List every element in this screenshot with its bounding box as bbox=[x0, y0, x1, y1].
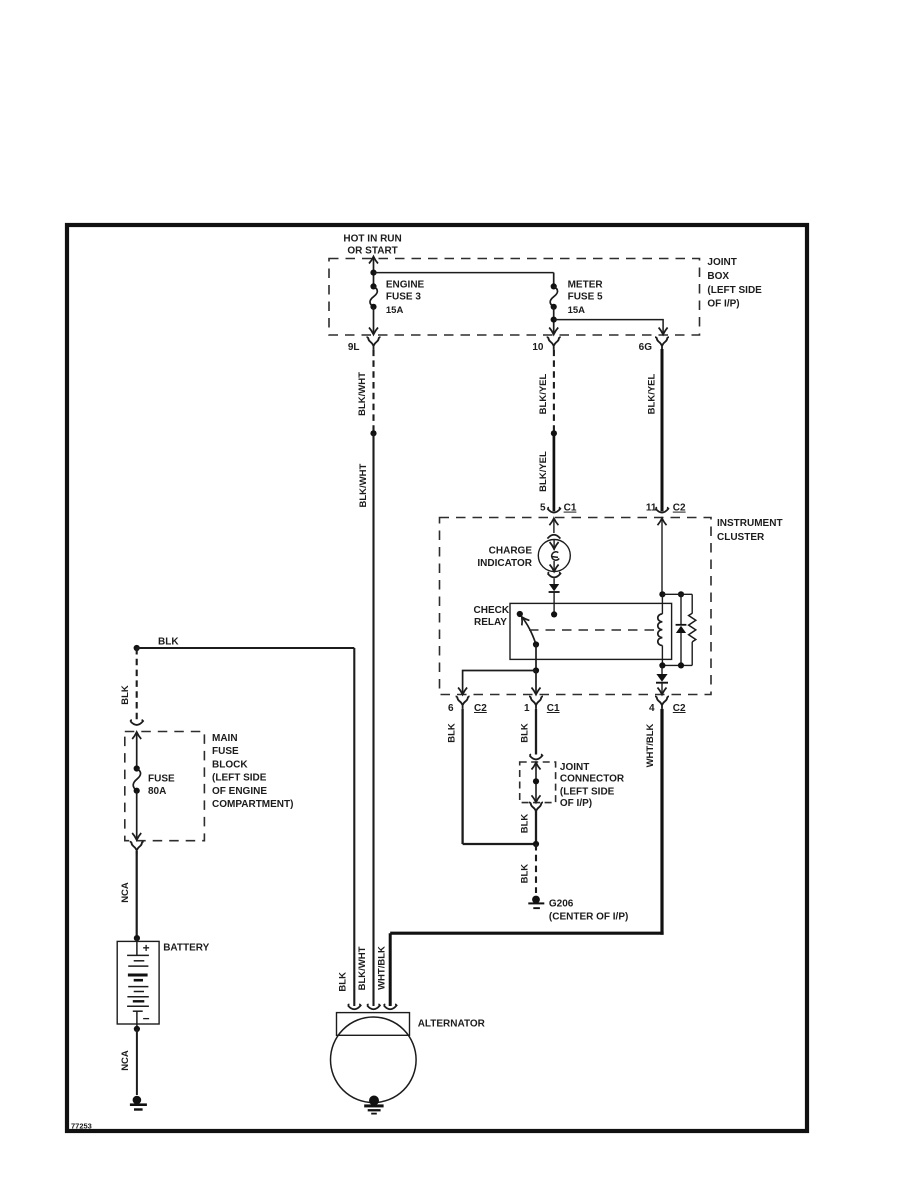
wire engine fuse to 9L bbox=[373, 307, 375, 334]
wire feed to meter fuse bbox=[374, 272, 554, 274]
node lamp terminal in relay bbox=[551, 611, 557, 617]
wire pin5 to lamp bbox=[553, 518, 555, 533]
arrow down inside bulb bbox=[550, 542, 559, 549]
relay actuator dashed link bbox=[529, 629, 657, 631]
charge indicator bulb circle bbox=[538, 540, 570, 572]
svg-text:CHARGE: CHARGE bbox=[489, 546, 533, 557]
svg-text:BLK/WHT: BLK/WHT bbox=[357, 372, 368, 416]
arrow down at pin 4 bbox=[658, 688, 667, 695]
connector cup alternator WHT/BLK bbox=[384, 1004, 397, 1009]
connector cup pin 6 bbox=[456, 696, 470, 709]
svg-text:9L: 9L bbox=[348, 342, 360, 353]
svg-text:WHT/BLK: WHT/BLK bbox=[645, 723, 656, 767]
wire to diode bbox=[553, 579, 555, 585]
bulb filament curl bbox=[551, 552, 559, 560]
ground G206 bbox=[528, 896, 544, 910]
wire down to pin 1 bbox=[535, 671, 537, 695]
wire NCA to battery bbox=[136, 851, 138, 938]
wire feed from hot up arrow bbox=[373, 258, 375, 286]
arrow down at 9L bbox=[369, 328, 378, 335]
fuse ENGINE FUSE 3 15A bbox=[370, 283, 376, 289]
connector cup fuse block bottom bbox=[130, 842, 144, 855]
joint box dashed outline bbox=[329, 259, 700, 336]
diode below charge indicator bbox=[549, 584, 559, 591]
svg-text:(LEFT SIDE: (LEFT SIDE bbox=[212, 773, 267, 784]
battery bottom stub bbox=[136, 1011, 138, 1029]
wire BLK/YEL dashed 10 down bbox=[553, 350, 555, 434]
svg-text:BLK: BLK bbox=[120, 685, 131, 705]
main fuse block dashed outline bbox=[125, 732, 205, 841]
wire BLK/YEL thick 6G down to cluster pin 11 bbox=[661, 349, 664, 511]
lamp socket bottom arc bbox=[548, 572, 561, 577]
lamp socket top arc bbox=[547, 535, 560, 539]
wire BLK/WHT dashed 9L down bbox=[372, 350, 374, 434]
alternator body circle bbox=[331, 1017, 417, 1103]
battery outline bbox=[117, 941, 159, 1024]
svg-text:BLK: BLK bbox=[520, 814, 531, 834]
node coil top left bbox=[659, 591, 665, 597]
joint connector dashed outline bbox=[520, 762, 556, 803]
relay lever arrowhead bbox=[518, 615, 529, 626]
arrow up into cluster pin 5 bbox=[549, 518, 558, 525]
node coil top right bbox=[678, 591, 684, 597]
svg-text:C2: C2 bbox=[673, 503, 686, 514]
connector cup pin 1 bbox=[529, 696, 543, 709]
node coil bottom left bbox=[659, 662, 665, 668]
wire WHT/BLK pin4 down bbox=[660, 709, 663, 935]
svg-text:NCA: NCA bbox=[120, 882, 131, 903]
wire fuse to block bottom bbox=[136, 791, 138, 840]
fuse FUSE 80A bbox=[134, 765, 140, 771]
arrow up inside joint connector bbox=[532, 763, 541, 770]
svg-text:RELAY: RELAY bbox=[474, 617, 507, 628]
node joint connector bbox=[533, 778, 539, 784]
connector cup 6G bbox=[655, 337, 669, 350]
svg-text:OF I/P): OF I/P) bbox=[560, 798, 592, 809]
svg-text:FUSE: FUSE bbox=[212, 746, 239, 757]
svg-text:JOINT: JOINT bbox=[560, 762, 589, 773]
wire bulb lower bbox=[553, 561, 555, 571]
connector cup alternator BLK bbox=[348, 1004, 361, 1009]
connector cup joint connector bottom bbox=[529, 802, 543, 815]
svg-text:ENGINE: ENGINE bbox=[386, 280, 425, 291]
svg-text:C1: C1 bbox=[564, 503, 577, 514]
svg-text:BATTERY: BATTERY bbox=[163, 943, 209, 954]
wire WHT/BLK horizontal run bbox=[390, 932, 663, 935]
relay switch pivot bbox=[533, 641, 539, 647]
svg-text:6: 6 bbox=[448, 703, 454, 714]
svg-text:BLK/YEL: BLK/YEL bbox=[538, 451, 549, 492]
ground alternator bbox=[364, 1096, 383, 1115]
wire BLK/WHT solid down to alternator bbox=[372, 433, 374, 1006]
svg-text:CONNECTOR: CONNECTOR bbox=[560, 774, 625, 785]
wire WHT/BLK down to alternator bbox=[389, 933, 392, 1006]
svg-text:MAIN: MAIN bbox=[212, 733, 238, 744]
svg-text:BLK: BLK bbox=[338, 972, 349, 992]
wire BLK/YEL solid to cluster pin 5 bbox=[553, 433, 556, 511]
svg-text:80A: 80A bbox=[148, 786, 166, 797]
connector cup 10 bbox=[547, 337, 561, 350]
arrow down at fuse block bottom bbox=[132, 833, 141, 840]
arrow down inside joint connector bbox=[532, 795, 541, 802]
svg-text:CLUSTER: CLUSTER bbox=[717, 532, 765, 543]
svg-text:BLK: BLK bbox=[446, 723, 457, 743]
arrow down at 10 bbox=[549, 328, 558, 335]
node battery negative bbox=[134, 1026, 140, 1032]
connector cup joint connector top bbox=[530, 754, 543, 759]
diode to pin 4 bbox=[661, 665, 663, 674]
wire NCA to ground bbox=[136, 1029, 138, 1095]
svg-text:1: 1 bbox=[524, 703, 530, 714]
splice node on BLK/WHT bbox=[370, 430, 376, 436]
svg-text:INSTRUMENT: INSTRUMENT bbox=[717, 518, 783, 529]
wire into fuse 80A bbox=[136, 732, 138, 769]
arrow up into fuse block bbox=[132, 732, 141, 739]
node feed junction bbox=[370, 270, 376, 276]
svg-text:BLK/YEL: BLK/YEL bbox=[538, 373, 549, 414]
svg-text:+: + bbox=[143, 941, 150, 955]
svg-text:HOT IN RUN: HOT IN RUN bbox=[343, 233, 401, 244]
svg-text:BLK: BLK bbox=[158, 637, 179, 648]
svg-text:JOINT: JOINT bbox=[707, 257, 736, 268]
svg-text:C1: C1 bbox=[547, 703, 560, 714]
node coil bottom right bbox=[678, 662, 684, 668]
wire BLK joint connector to ground node bbox=[535, 811, 537, 844]
connector cup pin 5 bbox=[548, 507, 561, 512]
svg-text:BLK: BLK bbox=[520, 864, 531, 884]
relay coil bbox=[661, 594, 663, 614]
svg-text:(LEFT SIDE: (LEFT SIDE bbox=[560, 787, 615, 798]
wire BLK vertical down to alternator bbox=[353, 648, 355, 1006]
wire BLK dashed to G206 bbox=[535, 844, 537, 893]
svg-text:(LEFT SIDE: (LEFT SIDE bbox=[707, 285, 762, 296]
wire pin6 branch joins ground node bbox=[463, 843, 536, 845]
splice node on BLK/YEL bbox=[551, 430, 557, 436]
arrow down at pin 6 bbox=[458, 688, 467, 695]
node branch to 6G bbox=[551, 317, 557, 323]
node switch output bbox=[533, 667, 539, 673]
svg-text:INDICATOR: INDICATOR bbox=[477, 558, 532, 569]
clamp diode bbox=[680, 594, 682, 625]
svg-text:G206: G206 bbox=[549, 899, 574, 910]
outer frame bbox=[67, 225, 807, 1131]
svg-text:FUSE 3: FUSE 3 bbox=[386, 291, 421, 302]
svg-text:BOX: BOX bbox=[707, 271, 729, 282]
connector cup pin 4 bbox=[655, 696, 669, 709]
svg-text:15A: 15A bbox=[568, 305, 586, 316]
svg-text:METER: METER bbox=[568, 280, 604, 291]
arrow up into cluster pin 11 bbox=[658, 518, 667, 525]
instrument cluster dashed outline bbox=[440, 518, 712, 695]
svg-text:OR START: OR START bbox=[347, 246, 397, 257]
wire bottom parallel bus bbox=[662, 664, 692, 666]
arrow down at bulb bottom bbox=[550, 565, 559, 572]
connector cup fuse block top bbox=[130, 720, 143, 725]
svg-text:WHT/BLK: WHT/BLK bbox=[377, 946, 388, 990]
svg-text:77253: 77253 bbox=[71, 1122, 92, 1131]
wire inside joint connector bbox=[535, 763, 537, 803]
battery top stub bbox=[136, 938, 138, 955]
relay fixed contact bbox=[517, 611, 523, 617]
resistor parallel bbox=[691, 594, 693, 613]
svg-text:−: − bbox=[143, 1011, 150, 1025]
wire branch to 6G bbox=[554, 320, 663, 334]
svg-text:6G: 6G bbox=[639, 342, 653, 353]
connector cup alternator BLK/WHT bbox=[367, 1004, 380, 1009]
node battery feed junction bbox=[134, 645, 140, 651]
relay switch lever bbox=[522, 617, 537, 645]
wire BLK pin1 down bbox=[535, 709, 537, 755]
svg-text:COMPARTMENT): COMPARTMENT) bbox=[212, 799, 293, 810]
svg-text:BLK/WHT: BLK/WHT bbox=[358, 464, 369, 508]
svg-text:C2: C2 bbox=[474, 703, 487, 714]
wire top parallel bus bbox=[662, 593, 692, 595]
svg-text:FUSE: FUSE bbox=[148, 774, 175, 785]
svg-text:BLOCK: BLOCK bbox=[212, 759, 248, 770]
svg-text:BLK/WHT: BLK/WHT bbox=[357, 946, 368, 990]
wire meter fuse down to 10 bbox=[553, 307, 555, 334]
wire through bulb bbox=[553, 540, 555, 550]
connector cup 9L bbox=[367, 337, 381, 350]
wire to pin 6 branch bbox=[463, 671, 536, 695]
fuse METER FUSE 5 15A bbox=[551, 283, 557, 289]
svg-text:FUSE 5: FUSE 5 bbox=[568, 291, 603, 302]
svg-text:5: 5 bbox=[540, 503, 546, 514]
wire pin11 down to coil node bbox=[661, 518, 663, 594]
svg-text:(CENTER OF I/P): (CENTER OF I/P) bbox=[549, 912, 628, 923]
svg-text:BLK: BLK bbox=[520, 723, 531, 743]
svg-text:C2: C2 bbox=[673, 703, 686, 714]
arrow down at 6G bbox=[659, 328, 668, 335]
connector cup pin 11 bbox=[656, 507, 669, 512]
arrow down at pin 1 bbox=[532, 688, 541, 695]
node battery positive bbox=[134, 935, 140, 941]
svg-text:4: 4 bbox=[649, 703, 655, 714]
wire BLK horizontal to alternator column bbox=[137, 647, 355, 649]
svg-text:OF I/P): OF I/P) bbox=[707, 299, 739, 310]
check relay outline bbox=[510, 603, 672, 659]
alternator terminal box bbox=[337, 1013, 410, 1036]
wire BLK pin6 down bbox=[461, 709, 463, 844]
wire BLK dashed down to main fuse block bbox=[136, 648, 138, 721]
svg-text:ALTERNATOR: ALTERNATOR bbox=[418, 1018, 486, 1029]
battery plates bbox=[127, 954, 149, 956]
node ground junction bbox=[533, 841, 539, 847]
svg-text:OF ENGINE: OF ENGINE bbox=[212, 786, 267, 797]
svg-text:NCA: NCA bbox=[120, 1050, 131, 1071]
svg-text:CHECK: CHECK bbox=[474, 605, 510, 616]
wire diode into relay bbox=[553, 592, 555, 614]
arrow up to HOT bbox=[369, 257, 378, 264]
svg-text:BLK/YEL: BLK/YEL bbox=[647, 373, 658, 414]
svg-text:15A: 15A bbox=[386, 305, 404, 316]
svg-text:10: 10 bbox=[532, 342, 544, 353]
wire relay switch to bottom node bbox=[535, 645, 537, 671]
ground battery bbox=[130, 1096, 147, 1111]
